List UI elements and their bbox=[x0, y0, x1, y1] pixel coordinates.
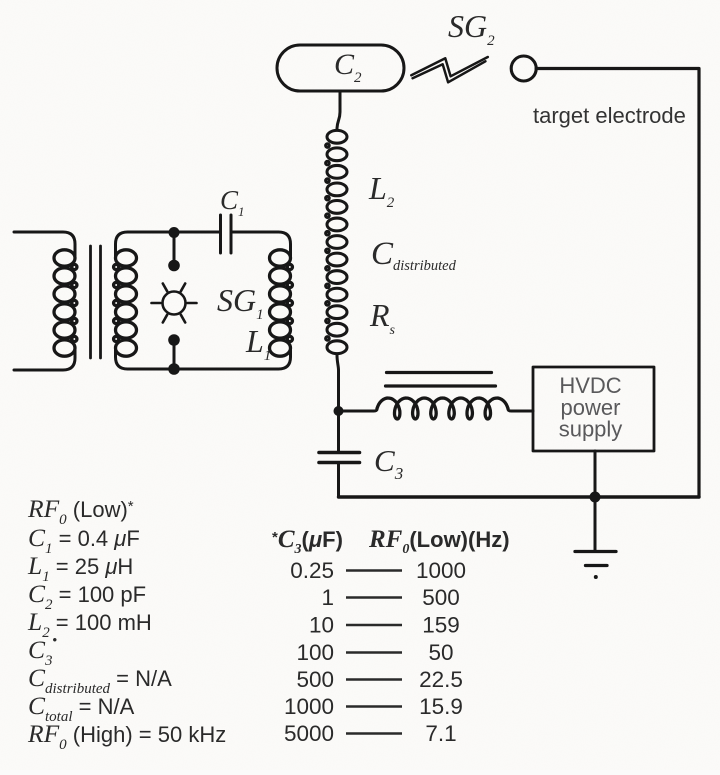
svg-text:159: 159 bbox=[422, 613, 460, 638]
spark gap SG1 top electrode dot bbox=[168, 260, 180, 272]
transformer T1 secondary winding (tank left side) bbox=[114, 250, 137, 356]
table row dash 1000 bbox=[346, 705, 402, 708]
ground symbol bbox=[575, 552, 616, 566]
spark gap SG1 rotary gap circle bbox=[163, 292, 186, 315]
spark gap SG1 spokes bbox=[152, 284, 197, 323]
svg-text:7.1: 7.1 bbox=[425, 721, 456, 746]
wire: L2 bottom to junction node bbox=[337, 355, 339, 452]
node: junction at L2 bottom bbox=[334, 406, 344, 416]
svg-text:1000: 1000 bbox=[416, 558, 466, 583]
svg-text:22.5: 22.5 bbox=[419, 667, 463, 692]
node: ground junction bbox=[590, 492, 601, 503]
table row dash 0.25 bbox=[346, 569, 402, 572]
wire: RF choke to HVDC supply bbox=[508, 410, 533, 412]
svg-text:1000: 1000 bbox=[284, 694, 334, 719]
svg-text:50: 50 bbox=[428, 640, 453, 665]
HVDC power supply box bbox=[533, 367, 654, 451]
wire: SG1 bottom lead bbox=[173, 343, 176, 369]
svg-text:100: 100 bbox=[296, 640, 334, 665]
wire: tank loop bottom edge bbox=[116, 348, 291, 369]
wire: AC input bottom lead bbox=[14, 348, 75, 370]
wire: AC input top lead bbox=[14, 232, 75, 258]
node: junction top of SG1 bbox=[169, 227, 180, 238]
wire: tank loop top edge bbox=[116, 232, 221, 258]
svg-text:supply: supply bbox=[559, 417, 623, 442]
spark gap SG1 bottom electrode dot bbox=[168, 334, 180, 346]
svg-text:0.25: 0.25 bbox=[290, 558, 334, 583]
table row dash 100 bbox=[346, 651, 402, 654]
wire: tank loop top edge right of C1 bbox=[232, 232, 291, 258]
transformer T1 primary winding bbox=[54, 250, 77, 356]
wire: HVDC supply to ground node bbox=[594, 451, 597, 497]
wire: target electrode to right rail and down bbox=[536, 69, 699, 498]
svg-text:15.9: 15.9 bbox=[419, 694, 463, 719]
target electrode circle bbox=[511, 56, 536, 81]
svg-text:1: 1 bbox=[321, 585, 334, 610]
capacitor C1 plates bbox=[221, 215, 232, 253]
svg-text:500: 500 bbox=[296, 667, 334, 692]
capacitor C2 toroid top load bbox=[277, 45, 404, 91]
wire: C2 to L2 bbox=[337, 91, 340, 129]
spark gap SG2 lightning bolt bbox=[411, 57, 488, 82]
inductor L1 (tank right side) bbox=[270, 250, 293, 356]
svg-text:5000: 5000 bbox=[284, 721, 334, 746]
svg-text:target electrode: target electrode bbox=[533, 103, 686, 128]
wire: bottom rail bbox=[339, 495, 700, 498]
table row dash 5000 bbox=[346, 732, 402, 735]
table row dash 1 bbox=[346, 596, 402, 599]
capacitor C3 plates bbox=[319, 453, 360, 463]
node: junction bottom of SG1 bbox=[168, 363, 180, 375]
table row dash 10 bbox=[346, 624, 402, 627]
wire: junction to RF choke bbox=[339, 410, 378, 412]
svg-text:10: 10 bbox=[309, 613, 334, 638]
svg-text:500: 500 bbox=[422, 585, 460, 610]
wire: C3 to bottom rail bbox=[337, 463, 340, 498]
table row dash 500 bbox=[346, 678, 402, 681]
transformer T1 core bbox=[91, 246, 101, 358]
inductor: RF choke bbox=[377, 398, 508, 419]
wire: SG1 top lead bbox=[173, 232, 176, 262]
RF choke core lines bbox=[386, 373, 496, 387]
inductor L2 secondary coil bbox=[326, 130, 347, 353]
wire: ground stem bbox=[594, 497, 597, 551]
